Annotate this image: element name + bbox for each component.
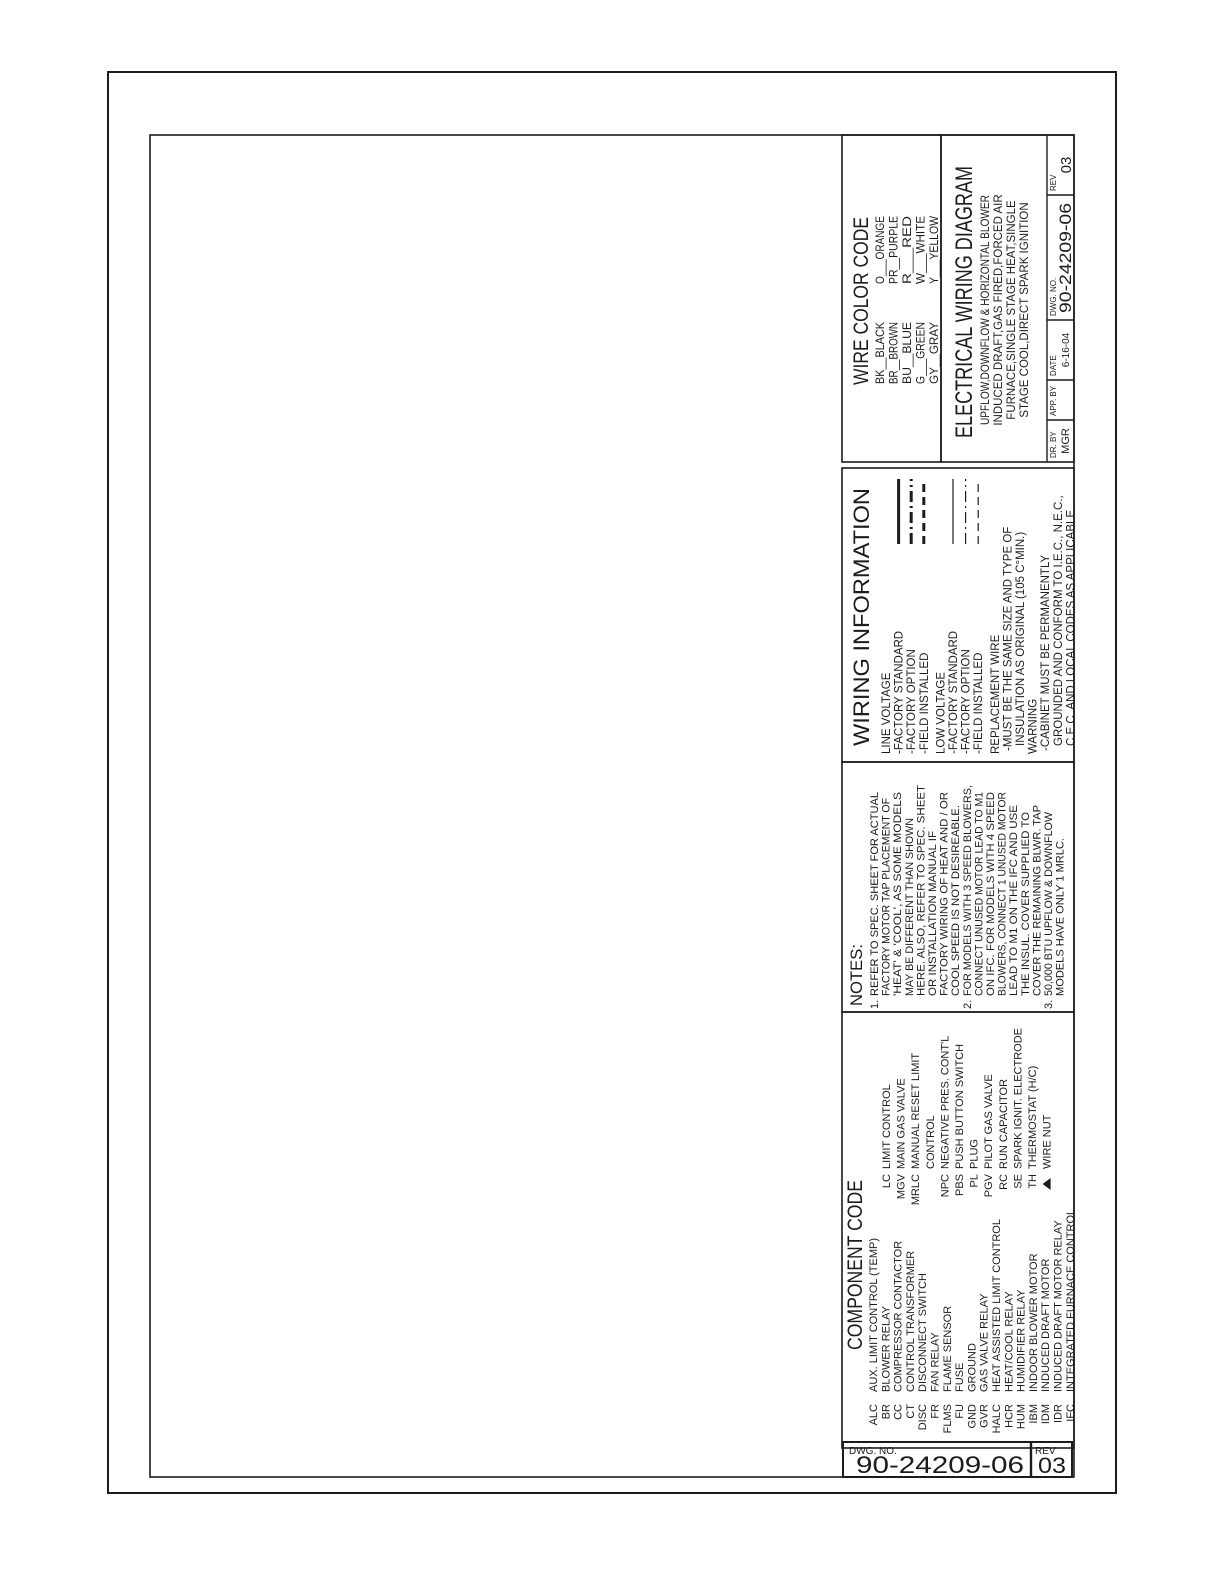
svg-text:CT: CT (905, 1404, 917, 1419)
svg-text:FACTORY WIRING OF HEAT AND / O: FACTORY WIRING OF HEAT AND / OR (939, 792, 951, 996)
svg-text:WIRE NUT: WIRE NUT (1042, 1114, 1054, 1169)
svg-text:MRLC: MRLC (910, 1174, 922, 1205)
svg-text:-FACTORY STANDARD: -FACTORY STANDARD (948, 631, 960, 754)
svg-text:FU: FU (954, 1404, 966, 1419)
svg-text:OR INSTALLATION MANUAL IF: OR INSTALLATION MANUAL IF (927, 831, 939, 996)
svg-text:THERMOSTAT (H/C): THERMOSTAT (H/C) (1027, 1066, 1039, 1169)
svg-text:INTEGRATED FURNACE CONTROL: INTEGRATED FURNACE CONTROL (1065, 1209, 1077, 1392)
svg-text:COMPRESSOR CONTACTOR: COMPRESSOR CONTACTOR (893, 1241, 905, 1392)
svg-text:TH: TH (1027, 1174, 1039, 1189)
svg-text:1.: 1. (869, 1000, 881, 1009)
svg-text:DISCONNECT SWITCH: DISCONNECT SWITCH (917, 1273, 929, 1392)
svg-text:-FACTORY STANDARD: -FACTORY STANDARD (894, 631, 906, 754)
outer sheet border (108, 72, 1116, 1493)
title block: ELECTRICAL WIRING DIAGRAM box (941, 135, 1074, 462)
COMPONENT CODE box (842, 1012, 1074, 1448)
svg-text:NPC: NPC (939, 1174, 951, 1197)
svg-text:O___ORANGE: O___ORANGE (875, 216, 887, 284)
svg-text:MAIN GAS VALVE: MAIN GAS VALVE (896, 1078, 908, 1169)
svg-text:THE INSUL. COVER SUPPLIED TO: THE INSUL. COVER SUPPLIED TO (1020, 812, 1032, 996)
svg-text:GROUNDED AND CONFORM TO I.E.C.: GROUNDED AND CONFORM TO I.E.C., N.E.C., (1053, 495, 1065, 746)
svg-text:R___RED: R___RED (902, 216, 914, 284)
svg-text:CONTROL TRANSFORMER: CONTROL TRANSFORMER (905, 1251, 917, 1392)
svg-text:IFC: IFC (1065, 1404, 1077, 1422)
svg-text:90-24209-06: 90-24209-06 (1056, 203, 1075, 313)
svg-text:MGR: MGR (1060, 428, 1072, 454)
svg-text:MAY BE DIFFERENT THAN SHOWN: MAY BE DIFFERENT THAN SHOWN (904, 818, 916, 996)
svg-text:CC: CC (893, 1404, 905, 1420)
svg-text:-FIELD INSTALLED: -FIELD INSTALLED (919, 653, 931, 754)
svg-text:FLAME SENSOR: FLAME SENSOR (942, 1306, 954, 1392)
svg-text:-FACTORY OPTION: -FACTORY OPTION (961, 649, 973, 754)
svg-text:STAGE COOL,DIRECT SPARK IGNITI: STAGE COOL,DIRECT SPARK IGNITION (1019, 202, 1031, 417)
svg-text:LC: LC (881, 1174, 893, 1188)
svg-text:AUX. LIMIT CONTROL (TEMP): AUX. LIMIT CONTROL (TEMP) (868, 1238, 880, 1392)
svg-text:PGV: PGV (983, 1173, 995, 1197)
svg-text:FURNACE,SINGLE STAGE HEAT,SING: FURNACE,SINGLE STAGE HEAT,SINGLE (1006, 200, 1018, 420)
svg-text:PR__PURPLE: PR__PURPLE (889, 216, 901, 284)
svg-text:PUSH BUTTON SWITCH: PUSH BUTTON SWITCH (954, 1044, 966, 1169)
svg-text:PBS: PBS (954, 1174, 966, 1196)
svg-text:IBM: IBM (1028, 1404, 1040, 1424)
svg-text:INSULATION AS ORIGINAL (105 C°: INSULATION AS ORIGINAL (105 C°MIN.) (1015, 532, 1027, 746)
svg-text:LIMIT CONTROL: LIMIT CONTROL (881, 1084, 893, 1169)
svg-text:INDOOR BLOWER MOTOR: INDOOR BLOWER MOTOR (1028, 1253, 1040, 1392)
svg-text:-CABINET MUST BE PERMANENTLY: -CABINET MUST BE PERMANENTLY (1040, 554, 1052, 751)
svg-text:RUN CAPACITOR: RUN CAPACITOR (998, 1079, 1010, 1169)
svg-text:GROUND: GROUND (966, 1343, 978, 1392)
title block: WIRE COLOR CODE box (842, 135, 941, 462)
svg-text:APP. BY: APP. BY (1049, 385, 1058, 416)
title block signature row (1046, 135, 1048, 462)
svg-text:REV: REV (1049, 174, 1058, 191)
svg-text:FOR MODELS WITH 3 SPEED BLOWER: FOR MODELS WITH 3 SPEED BLOWERS, (962, 785, 974, 996)
svg-text:HUMIDIFIER RELAY: HUMIDIFIER RELAY (1016, 1289, 1028, 1392)
svg-text:Y___YELLOW: Y___YELLOW (929, 216, 941, 284)
svg-text:UPFLOW,DOWNFLOW & HORIZONTAL B: UPFLOW,DOWNFLOW & HORIZONTAL BLOWER (980, 195, 992, 425)
svg-text:COVER THE REMAINING BLWR. TAP: COVER THE REMAINING BLWR. TAP (1031, 805, 1043, 996)
svg-text:RC: RC (998, 1174, 1010, 1190)
svg-text:6-16-04: 6-16-04 (1061, 332, 1072, 367)
svg-text:PL: PL (969, 1174, 981, 1187)
svg-text:LOW VOLTAGE: LOW VOLTAGE (935, 672, 947, 754)
svg-text:GAS VALVE RELAY: GAS VALVE RELAY (979, 1293, 991, 1392)
svg-text:BR: BR (880, 1404, 892, 1419)
svg-text:REFER TO SPEC. SHEET FOR ACTUA: REFER TO SPEC. SHEET FOR ACTUAL (869, 792, 881, 996)
svg-text:ELECTRICAL WIRING DIAGRAM: ELECTRICAL WIRING DIAGRAM (951, 166, 978, 438)
svg-text:REPLACEMENT WIRE: REPLACEMENT WIRE (990, 634, 1002, 754)
svg-text:FUSE: FUSE (954, 1363, 966, 1392)
svg-text:HEAT ASSISTED LIMIT CONTROL: HEAT ASSISTED LIMIT CONTROL (991, 1219, 1003, 1392)
svg-text:SE: SE (1012, 1174, 1024, 1189)
svg-text:DR. BY: DR. BY (1049, 431, 1058, 458)
svg-text:COMPONENT CODE: COMPONENT CODE (844, 1180, 867, 1350)
svg-text:3.: 3. (1043, 1000, 1055, 1009)
svg-text:GVR: GVR (979, 1404, 991, 1428)
svg-text:HERE. ALSO, REFER TO SPEC. SHE: HERE. ALSO, REFER TO SPEC. SHEET (915, 785, 927, 996)
svg-text:IDM: IDM (1040, 1404, 1052, 1424)
svg-text:SPARK IGNIT. ELECTRODE: SPARK IGNIT. ELECTRODE (1012, 1028, 1024, 1169)
svg-text:NEGATIVE PRES. CONT'L: NEGATIVE PRES. CONT'L (939, 1036, 951, 1169)
svg-text:BLOWER RELAY: BLOWER RELAY (880, 1305, 892, 1392)
svg-text:NOTES:: NOTES: (847, 944, 866, 1006)
svg-text:CONTROL: CONTROL (925, 1115, 937, 1169)
svg-text:CONNECT UNUSED MOTOR LEAD TO M: CONNECT UNUSED MOTOR LEAD TO M1 (973, 792, 985, 996)
svg-text:HEAT/COOL RELAY: HEAT/COOL RELAY (1003, 1291, 1015, 1392)
svg-text:HALC: HALC (991, 1404, 1003, 1433)
svg-text:WIRING INFORMATION: WIRING INFORMATION (849, 488, 874, 746)
svg-text:BU__BLUE: BU__BLUE (902, 322, 914, 384)
bottom filing strip DWG NO / REV (843, 1442, 1072, 1477)
svg-text:LINE VOLTAGE: LINE VOLTAGE (881, 672, 893, 754)
svg-text:IDR: IDR (1053, 1404, 1065, 1423)
svg-text:DISC: DISC (917, 1404, 929, 1430)
svg-text:INDUCED DRAFT,GAS FIRED,FORCED: INDUCED DRAFT,GAS FIRED,FORCED AIR (993, 194, 1005, 425)
svg-text:C.E.C. AND LOCAL CODES AS APPL: C.E.C. AND LOCAL CODES AS APPLICABLE. (1065, 507, 1077, 746)
svg-text:COOL SPEED IS NOT DESIREABLE.: COOL SPEED IS NOT DESIREABLE. (950, 805, 962, 996)
svg-text:INDUCED DRAFT MOTOR: INDUCED DRAFT MOTOR (1040, 1259, 1052, 1392)
NOTES box (842, 762, 1074, 1012)
svg-text:FLMS: FLMS (942, 1404, 954, 1433)
svg-text:03: 03 (1038, 1453, 1066, 1478)
WIRING INFORMATION box (842, 468, 1074, 762)
svg-text:GY__GRAY: GY__GRAY (929, 322, 941, 384)
svg-text:MGV: MGV (896, 1173, 908, 1199)
svg-text:03: 03 (1058, 157, 1075, 174)
svg-text:90-24209-06: 90-24209-06 (856, 1452, 1024, 1479)
svg-text:-FACTORY OPTION: -FACTORY OPTION (906, 649, 918, 754)
svg-text:DATE: DATE (1049, 355, 1058, 376)
svg-text:PLUG: PLUG (969, 1139, 981, 1169)
svg-text:HUM: HUM (1016, 1404, 1028, 1429)
svg-text:PILOT GAS VALVE: PILOT GAS VALVE (983, 1074, 995, 1169)
svg-text:WIRE COLOR CODE: WIRE COLOR CODE (850, 217, 873, 385)
svg-text:BR__BROWN: BR__BROWN (889, 322, 901, 384)
svg-text:50,000 BTU UPFLOW & DOWNFLOW: 50,000 BTU UPFLOW & DOWNFLOW (1043, 811, 1055, 996)
svg-text:HCR: HCR (1003, 1404, 1015, 1428)
svg-text:MANUAL RESET LIMIT: MANUAL RESET LIMIT (910, 1053, 922, 1169)
svg-text:FACTORY MOTOR TAP PLACEMENT OF: FACTORY MOTOR TAP PLACEMENT OF (881, 798, 893, 996)
svg-text:W___WHITE: W___WHITE (916, 216, 928, 284)
inner drawing frame (150, 135, 1074, 1477)
svg-text:MODELS HAVE ONLY 1 MRLC.: MODELS HAVE ONLY 1 MRLC. (1055, 838, 1067, 996)
svg-text:INDUCED DRAFT MOTOR RELAY: INDUCED DRAFT MOTOR RELAY (1053, 1220, 1065, 1392)
svg-text:-MUST BE THE SAME SIZE AND TYP: -MUST BE THE SAME SIZE AND TYPE OF (1002, 527, 1014, 751)
svg-text:WARNING: WARNING (1028, 699, 1040, 754)
svg-text:BK__BLACK: BK__BLACK (875, 322, 887, 384)
svg-text:FR: FR (930, 1404, 942, 1419)
svg-text:2.: 2. (962, 1000, 974, 1009)
svg-text:LEAD TO M1 ON THE IFC AND USE: LEAD TO M1 ON THE IFC AND USE (1008, 805, 1020, 996)
svg-text:'HEAT' & 'COOL', AS SOME MODEL: 'HEAT' & 'COOL', AS SOME MODELS (892, 792, 904, 996)
svg-text:FAN RELAY: FAN RELAY (930, 1332, 942, 1392)
svg-text:-FIELD INSTALLED: -FIELD INSTALLED (973, 653, 985, 754)
svg-text:G___GREEN: G___GREEN (916, 322, 928, 384)
svg-text:GND: GND (966, 1404, 978, 1429)
svg-text:BLOWERS, CONNECT 1 UNUSED MOTO: BLOWERS, CONNECT 1 UNUSED MOTOR (997, 792, 1009, 996)
svg-text:ON IFC. FOR MODELS WITH 4 SPEE: ON IFC. FOR MODELS WITH 4 SPEED (985, 792, 997, 996)
svg-text:ALC: ALC (868, 1404, 880, 1425)
